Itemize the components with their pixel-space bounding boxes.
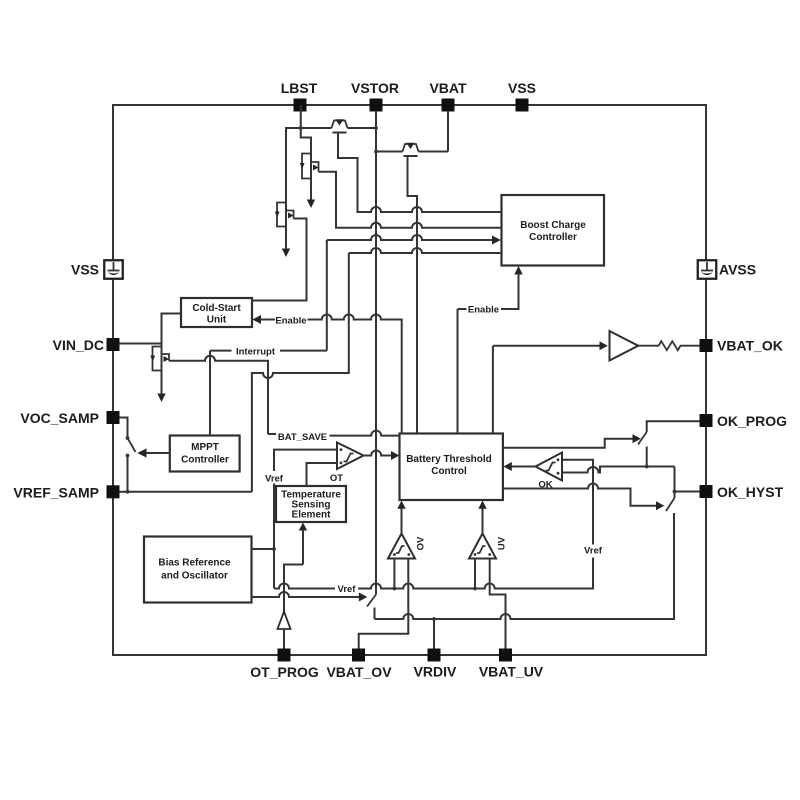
svg-text:MPPT: MPPT <box>191 442 219 453</box>
wire VRDIV pin drop <box>433 619 435 649</box>
svg-text:VSS: VSS <box>71 262 99 278</box>
svg-text:Control: Control <box>431 466 467 477</box>
transistor Q4 (PMOS VSTOR-VBAT) <box>403 143 419 156</box>
svg-text:OT_PROG: OT_PROG <box>250 664 319 680</box>
wire Vref distribution rail <box>274 558 593 596</box>
wire UV plus input to Vref rail <box>474 559 476 589</box>
svg-text:Boost Charge: Boost Charge <box>520 220 586 231</box>
wire Battery Threshold Control to VBAT_OK buffer input <box>493 341 608 433</box>
wire OK output arrow into Battery Threshold Control right edge <box>503 462 535 471</box>
wire OV plus input to Vref rail <box>393 559 395 589</box>
svg-text:OK_HYST: OK_HYST <box>717 484 784 500</box>
wire OT plus input from Vref <box>274 450 337 471</box>
svg-text:Controller: Controller <box>529 232 577 243</box>
wire LBST drop to M2 drain <box>301 105 311 201</box>
svg-text:Battery Threshold: Battery Threshold <box>406 454 492 465</box>
wire Enable into Cold-Start Unit with left arrow <box>252 315 401 434</box>
svg-text:UV: UV <box>497 536 508 550</box>
pin OT_PROG <box>250 649 319 681</box>
wire control arrow from Battery Threshold Control to OK_PROG switch <box>503 434 641 448</box>
wire BAT_SAVE into Battery Threshold Control <box>268 431 400 443</box>
wire Interrupt from MPPT to bus3 <box>210 347 327 436</box>
wire OK_PROG pin lead <box>647 421 700 432</box>
op-amp VBAT_OK buffer <box>610 331 639 361</box>
ground pin VSS left <box>71 260 123 279</box>
comparator OT <box>330 443 364 485</box>
svg-text:VSS: VSS <box>508 80 536 96</box>
svg-text:VRDIV: VRDIV <box>414 664 457 680</box>
switch MPPT sampling switch <box>126 436 136 492</box>
wire bus4 drop and run to VREF_SAMP riser <box>252 253 349 492</box>
svg-text:VBAT: VBAT <box>429 80 467 96</box>
wire OK_HYST link down from OK plus network <box>674 467 676 499</box>
wire LBST node to left vertical and PMOS Q1 left lead <box>286 128 332 250</box>
switch OK_HYST <box>666 498 675 511</box>
wire Bias lower output with arrow to VSTOR switch <box>252 592 368 602</box>
wire Q4 left lead to VSTOR rail <box>376 151 403 153</box>
wire Cold-Start left input from VIN_DC <box>162 314 182 344</box>
svg-text:and Oscillator: and Oscillator <box>161 571 228 582</box>
IC outer boundary <box>113 105 706 655</box>
svg-text:VOC_SAMP: VOC_SAMP <box>20 410 99 426</box>
pin VREF_SAMP <box>13 485 119 501</box>
wire OV output arrow into Battery Threshold Control bottom <box>397 501 405 534</box>
wire OK_HYST pin lead <box>673 490 700 494</box>
pin VSTOR <box>351 80 399 112</box>
svg-text:AVSS: AVSS <box>719 262 756 278</box>
amplifier OT_PROG triangle <box>278 612 291 649</box>
current arrow below M3 <box>282 249 290 258</box>
wire OT minus input from Temperature Sensing Element <box>307 463 338 486</box>
transistor M3 gate bracket <box>275 203 286 227</box>
wire VRDIV ladder line <box>375 513 675 619</box>
pin VRDIV <box>414 649 457 680</box>
node LBST junction <box>299 126 303 130</box>
node VSTOR-Q1 junction <box>374 126 378 130</box>
wire control arrow from Battery Threshold Control to OK_HYST switch <box>503 484 664 511</box>
svg-text:VIN_DC: VIN_DC <box>53 337 104 353</box>
resistor VBAT_OK series <box>638 341 699 350</box>
wire VSTOR rail <box>375 111 377 595</box>
block Battery Threshold Control <box>400 434 503 501</box>
svg-text:OV: OV <box>416 536 427 550</box>
svg-text:BAT_SAVE: BAT_SAVE <box>278 432 327 443</box>
pin VIN_DC <box>53 337 120 353</box>
svg-text:Cold-Start: Cold-Start <box>192 303 241 314</box>
comparator OK <box>536 453 563 491</box>
block Bias Reference and Oscillator <box>144 537 252 603</box>
comparator UV <box>469 534 508 559</box>
wire Vref riser to OK comparator minus input <box>562 460 593 545</box>
svg-text:Bias Reference: Bias Reference <box>158 558 231 569</box>
current arrow below M2 <box>307 200 315 209</box>
transistor M5 (VIN_DC FET) <box>150 344 169 403</box>
pin LBST <box>281 80 318 112</box>
svg-text:Unit: Unit <box>207 315 227 326</box>
block MPPT Controller <box>170 436 240 472</box>
wire bus4 into Boost Charge Controller <box>349 248 502 253</box>
comparator OV <box>388 534 427 559</box>
pin VBAT_UV <box>479 649 544 680</box>
svg-text:VBAT_OV: VBAT_OV <box>326 664 392 680</box>
pin OK_PROG <box>700 413 788 429</box>
wire bus3 Interrupt line into Boost Charge Controller with arrow <box>327 235 501 351</box>
transistor M2 gate bracket <box>300 154 311 179</box>
wire Q1 gate to bus1 into Boost Charge Controller <box>338 133 502 213</box>
wire VBAT drop <box>447 111 449 152</box>
block Temperature Sensing Element <box>276 486 346 522</box>
pin OK_HYST <box>700 484 784 500</box>
block Boost Charge Controller <box>502 195 605 266</box>
wire M5 tab to BAT_SAVE riser (hop over MPPT riser) <box>169 356 268 434</box>
block Cold-Start Unit <box>181 298 252 327</box>
svg-text:LBST: LBST <box>281 80 318 96</box>
svg-text:Element: Element <box>292 510 332 521</box>
wire UV output arrow into Battery Threshold Control bottom <box>478 501 486 534</box>
switch VSTOR divider switch <box>367 595 376 620</box>
ground pin AVSS right <box>698 260 756 279</box>
wire UV minus input to VBAT_UV pin <box>490 559 506 649</box>
svg-text:Enable: Enable <box>468 305 499 316</box>
svg-text:Interrupt: Interrupt <box>236 347 276 358</box>
svg-text:VBAT_UV: VBAT_UV <box>479 664 544 680</box>
svg-text:Vref: Vref <box>265 474 284 485</box>
wire MPPT control arrow to switch <box>137 448 170 457</box>
node VRDIV junction <box>432 617 436 621</box>
pin VOC_SAMP <box>20 410 119 426</box>
switch OK_PROG <box>638 432 647 467</box>
pin VBAT_OK <box>700 338 783 354</box>
transistor M3 bulk tab and wire down to Cold-Start Unit <box>252 211 307 301</box>
pin VSS top <box>508 80 536 112</box>
svg-text:Controller: Controller <box>181 455 229 466</box>
wire OV minus input to VBAT_OV pin <box>359 559 409 649</box>
svg-text:Vref: Vref <box>338 584 357 595</box>
wire VREF_SAMP pin lead <box>120 491 252 493</box>
svg-text:OK_PROG: OK_PROG <box>717 413 787 429</box>
node VREF_SAMP switch junction <box>126 490 130 494</box>
svg-text:VBAT_OK: VBAT_OK <box>717 338 783 354</box>
wire Bias top output joins Vref riser <box>252 547 276 551</box>
svg-text:Vref: Vref <box>584 546 603 557</box>
wire OK plus input to OK_PROG/OK_HYST network <box>562 465 675 473</box>
wire Q4 gate chain down to Battery Threshold Control top <box>408 156 418 434</box>
svg-text:Enable: Enable <box>275 316 306 327</box>
wire Q1 right lead to VSTOR rail <box>348 127 377 129</box>
pin VBAT_OV <box>326 649 392 681</box>
transistor M2 bulk tab and wire to bus2 into Boost Charge Controller <box>311 162 502 228</box>
svg-text:OT: OT <box>330 473 343 484</box>
wire Enable to Boost Charge Controller with up arrow <box>458 266 523 434</box>
node VSTOR-Q4 junction <box>374 150 378 154</box>
wire Q4 right lead to VBAT <box>419 151 449 153</box>
transistor Q1 (PMOS LBST-VSTOR) <box>332 119 348 132</box>
wire Temperature element up arrow from OT_PROG chain <box>284 523 307 612</box>
svg-text:VREF_SAMP: VREF_SAMP <box>13 485 99 501</box>
wire VOC_SAMP pin lead <box>120 418 128 438</box>
wire Vref riser below label to Bias output <box>273 484 275 589</box>
wire OT output arrow into Battery Threshold Control <box>364 451 400 461</box>
wire VIN_DC pin lead <box>120 343 162 345</box>
pin VBAT <box>429 80 467 112</box>
svg-text:VSTOR: VSTOR <box>351 80 399 96</box>
